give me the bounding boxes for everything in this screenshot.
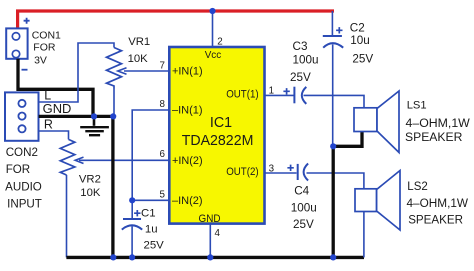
svg-text:1u: 1u xyxy=(145,224,158,236)
svg-text:C2: C2 xyxy=(350,22,365,35)
wire: LS2 bottom to ground rail xyxy=(363,212,365,258)
wire: +3V red rail from CON1 to C2 xyxy=(18,11,334,28)
svg-text:8: 8 xyxy=(160,99,166,110)
wire: black vertical ground trunk xyxy=(111,116,114,257)
svg-text:TDA2822M: TDA2822M xyxy=(182,133,254,149)
wire: C2 bottom to junction xyxy=(332,45,334,147)
svg-text:4–OHM,1W: 4–OHM,1W xyxy=(407,196,469,210)
svg-text:LS1: LS1 xyxy=(407,100,427,112)
svg-text:100u: 100u xyxy=(291,201,317,214)
connector CON1 xyxy=(6,28,27,58)
wire: C4 to LS2 top xyxy=(307,173,364,189)
svg-text:100u: 100u xyxy=(293,53,319,66)
svg-text:6: 6 xyxy=(160,149,166,160)
wire: C3 to LS1 top xyxy=(304,95,365,107)
svg-text:4: 4 xyxy=(215,228,221,239)
svg-text:VR1: VR1 xyxy=(128,36,150,48)
ground xyxy=(93,116,96,125)
potentiometer VR1 xyxy=(107,48,122,89)
node: C2/LS1 junction xyxy=(330,143,336,149)
svg-text:GND: GND xyxy=(43,102,72,116)
wire: VR1 wiper to pin 7 with arrow xyxy=(124,70,170,72)
capacitor C4 xyxy=(297,164,299,180)
svg-text:10K: 10K xyxy=(80,187,101,199)
svg-text:OUT(2): OUT(2) xyxy=(226,166,258,178)
minus label of CON1 xyxy=(22,69,28,71)
wire: pin 8 to pin 5 link xyxy=(132,110,170,200)
svg-text:AUDIO: AUDIO xyxy=(5,180,42,193)
svg-text:L: L xyxy=(44,89,51,103)
svg-text:Vcc: Vcc xyxy=(205,50,222,61)
svg-text:5: 5 xyxy=(160,189,166,200)
node: right trunk on rail xyxy=(330,254,336,260)
node: ground trunk on rail xyxy=(110,254,116,260)
svg-text:–IN(1): –IN(1) xyxy=(172,104,203,116)
svg-text:25V: 25V xyxy=(293,218,314,231)
wire: CON1 negative to ground node (black) xyxy=(18,59,93,117)
svg-text:SPEAKER: SPEAKER xyxy=(408,213,463,227)
svg-text:INPUT: INPUT xyxy=(7,198,42,211)
svg-text:R: R xyxy=(44,117,53,131)
wire: L input to VR1 top xyxy=(39,43,114,102)
speaker LS2 xyxy=(355,189,377,212)
svg-text:10u: 10u xyxy=(350,34,370,47)
node: pin5/pin8/C1 junction xyxy=(129,197,135,203)
wire: bottom ground rail (black) xyxy=(66,256,364,259)
op-amp IC1 TDA2822M body xyxy=(169,47,264,224)
wire: junction to LS1 bottom (black) xyxy=(333,132,362,147)
svg-text:OUT(1): OUT(1) xyxy=(226,89,258,101)
node: pin 4 on rail xyxy=(207,254,213,260)
svg-text:FOR: FOR xyxy=(33,42,56,54)
wire: pin 5 xyxy=(132,199,170,201)
svg-text:C3: C3 xyxy=(293,40,308,53)
svg-text:3V: 3V xyxy=(34,55,47,67)
svg-text:+IN(1): +IN(1) xyxy=(172,66,203,78)
speaker LS1 xyxy=(354,108,377,132)
svg-text:–IN(2): –IN(2) xyxy=(172,195,203,207)
svg-text:25V: 25V xyxy=(144,240,165,252)
svg-text:25V: 25V xyxy=(352,53,373,66)
svg-text:GND: GND xyxy=(199,213,221,225)
svg-text:10K: 10K xyxy=(128,53,149,65)
wire: pin 2 Vcc stub xyxy=(212,11,214,47)
svg-text:IC1: IC1 xyxy=(210,115,232,131)
svg-text:CON1: CON1 xyxy=(32,30,61,42)
wire: pin 1 to C3 xyxy=(265,94,294,96)
wire: VR1 bottom to ground node xyxy=(113,89,115,117)
capacitor C3 xyxy=(293,87,295,104)
svg-text:CON2: CON2 xyxy=(6,146,38,159)
wire: VR2 wiper to pin 6 with arrow xyxy=(79,159,170,161)
svg-text:LS2: LS2 xyxy=(407,181,427,193)
connector CON2 xyxy=(5,92,39,140)
svg-text:C4: C4 xyxy=(294,185,309,198)
node: junction on +3V rail xyxy=(209,8,215,14)
svg-text:4–OHM,1W: 4–OHM,1W xyxy=(406,116,471,130)
svg-text:C1: C1 xyxy=(141,208,156,220)
svg-text:VR2: VR2 xyxy=(79,174,101,186)
svg-text:2: 2 xyxy=(217,37,222,48)
wire: junction down to ground rail (black) xyxy=(332,146,335,257)
wire: VR2 bottom to ground rail xyxy=(66,175,68,258)
svg-text:25V: 25V xyxy=(290,71,311,84)
wire: pin 3 to C4 xyxy=(265,172,297,174)
wire: R input to VR2 top xyxy=(39,131,69,139)
node: VR1 bottom junction xyxy=(110,113,116,119)
svg-text:+IN(2): +IN(2) xyxy=(172,155,203,167)
node: ground symbol junction xyxy=(91,113,97,119)
capacitor C2 xyxy=(323,35,342,37)
wire: pin 4 GND stub xyxy=(209,224,211,258)
capacitor C1 xyxy=(131,200,133,219)
wire: red rail down to C2 xyxy=(331,11,333,35)
plus label of CON1 xyxy=(24,18,30,24)
svg-text:SPEAKER: SPEAKER xyxy=(405,130,463,144)
svg-text:FOR: FOR xyxy=(6,163,30,176)
node: C1 on rail xyxy=(129,254,135,260)
svg-text:7: 7 xyxy=(160,60,165,71)
wire: GND bus from CON2 (black) xyxy=(39,115,114,118)
potentiometer VR2 xyxy=(60,139,75,175)
